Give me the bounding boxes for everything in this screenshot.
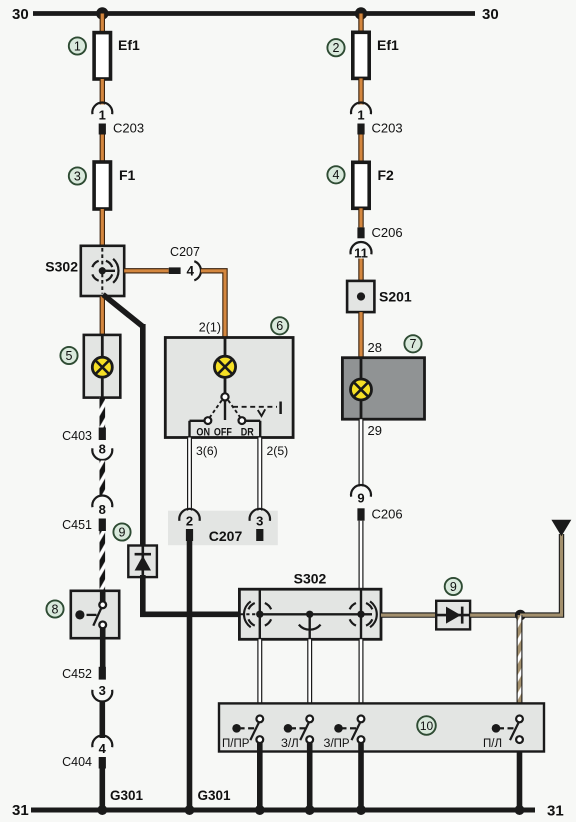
callout 6: [271, 317, 288, 334]
svg-text:F2: F2: [378, 167, 395, 183]
svg-text:7: 7: [410, 337, 417, 351]
svg-text:11: 11: [354, 246, 368, 261]
fuse F2: [353, 162, 369, 208]
svg-text:3: 3: [99, 683, 106, 698]
junction on bus 31: [515, 805, 525, 815]
wire Z/PR to ground bus: [358, 743, 364, 810]
connector C206 pin 9: [351, 485, 371, 497]
svg-text:2: 2: [186, 514, 193, 529]
svg-text:6: 6: [276, 319, 283, 333]
svg-text:30: 30: [482, 6, 499, 23]
svg-text:8: 8: [99, 442, 106, 457]
callout 1: [69, 37, 86, 54]
svg-text:9: 9: [450, 580, 457, 594]
switch unit 10 door switches: [219, 703, 544, 751]
svg-text:G301: G301: [110, 788, 144, 803]
junction on bus 30 left: [96, 7, 108, 19]
callout 4: [327, 166, 344, 183]
svg-text:1: 1: [74, 39, 81, 53]
svg-text:10: 10: [420, 719, 434, 733]
svg-text:31: 31: [547, 803, 564, 820]
switch in unit 6: [221, 393, 228, 400]
wire C452 to C404: [100, 702, 106, 738]
junction on bus 31: [185, 805, 195, 815]
wire junction to switch P/L: [517, 615, 523, 716]
wire S302 to lamp 5: [100, 296, 105, 335]
wire 2(5) to C207 pin3: [257, 438, 262, 511]
wire Ef1 to C203 right: [358, 78, 363, 104]
connector C207 block: [168, 511, 278, 546]
off-page arrow: [551, 520, 571, 536]
svg-text:C203: C203: [113, 121, 144, 136]
svg-text:9: 9: [119, 525, 126, 539]
lamp in unit 6: [224, 338, 227, 357]
connector C451 pin 8: [92, 496, 112, 508]
wire F2 to C206: [358, 208, 363, 227]
svg-text:C203: C203: [372, 121, 403, 136]
connector C203 pin 1 right: [351, 103, 371, 115]
svg-text:C207: C207: [209, 528, 243, 544]
switch S302 courtesy lamps: [239, 589, 381, 639]
wire P/PR to ground bus: [257, 743, 263, 810]
wire F1 to switch S302: [100, 209, 105, 246]
wire C206 pin9 to switch S302 courtesy: [359, 521, 364, 590]
svg-text:30: 30: [12, 6, 29, 23]
svg-text:31: 31: [12, 802, 29, 819]
contact left S302: [241, 613, 257, 615]
svg-text:S302: S302: [45, 259, 78, 275]
svg-text:3: 3: [256, 514, 263, 529]
svg-text:C451: C451: [62, 518, 92, 532]
svg-text:4: 4: [187, 263, 195, 278]
connector C207 pin 4: [169, 267, 181, 274]
lamp 5 underhood: [84, 335, 121, 398]
wire C451 to switch 8: [100, 531, 106, 591]
connector C403 pin 8: [99, 428, 106, 441]
wire C403 to C451: [100, 461, 106, 497]
wire C206 to S201: [358, 259, 363, 282]
wire S302 middle contact down: [309, 618, 311, 640]
switch S302 ignition: [81, 246, 124, 296]
wire Z/L to ground bus: [307, 743, 313, 810]
wire Ef1 to connector C203 pin1 left: [100, 79, 105, 105]
linkage dashed to door actuator: [233, 406, 277, 408]
junction on bus 31: [356, 805, 366, 815]
svg-text:2: 2: [333, 41, 340, 55]
svg-text:C206: C206: [372, 225, 403, 240]
connector C203 pin 1 left: [92, 103, 112, 115]
junction node tan: [515, 610, 526, 621]
wire C207 pin2 to ground G301: [187, 541, 193, 810]
wire C404 to ground G301: [100, 769, 106, 811]
connector C207 pin 3: [250, 509, 270, 521]
callout 7: [404, 335, 421, 352]
contact right S302: [366, 603, 372, 609]
svg-text:C404: C404: [62, 755, 92, 769]
contact middle S302: [260, 613, 361, 615]
wire S302 right contact down: [360, 618, 362, 640]
fuse Ef1 left: [94, 33, 110, 79]
svg-text:C452: C452: [62, 667, 92, 681]
svg-text:ON: ON: [196, 426, 210, 438]
svg-text:П/ПР: П/ПР: [222, 738, 250, 750]
svg-text:DR: DR: [241, 426, 254, 438]
diode 9 left: [128, 546, 157, 578]
svg-text:8: 8: [52, 602, 59, 616]
wire lamp6 DR contact: [245, 420, 260, 422]
callout 8: [46, 600, 63, 617]
svg-text:Ef1: Ef1: [377, 37, 399, 53]
svg-text:5: 5: [66, 349, 73, 363]
junction on bus 31: [255, 805, 265, 815]
wire junction to off-page arrow: [518, 534, 562, 615]
svg-text:З/ПР: З/ПР: [324, 738, 350, 750]
callout 5: [60, 347, 77, 364]
svg-text:S302: S302: [294, 571, 327, 587]
connector C404 pin 4: [92, 736, 112, 748]
diode 9 right: [436, 601, 470, 630]
wire P/L to ground bus: [517, 752, 523, 811]
svg-text:C207: C207: [170, 245, 200, 259]
svg-text:G301: G301: [198, 788, 232, 803]
wire S201 to lamp unit 7: [358, 312, 363, 358]
wire diode9 to switch S302 courtesy: [140, 575, 146, 614]
wire S302 to diode 9 (diagonal): [103, 295, 143, 327]
svg-text:9: 9: [357, 491, 364, 506]
wire S302 left contact down: [259, 618, 261, 640]
wire C207 pin4 to lamp unit: [201, 271, 225, 338]
switch P/PR: [232, 724, 241, 733]
svg-text:4: 4: [99, 741, 107, 756]
svg-text:S201: S201: [379, 289, 412, 305]
junction on bus 31: [97, 805, 107, 815]
connector C207 pin 2: [179, 509, 199, 521]
svg-text:П/Л: П/Л: [483, 738, 502, 750]
callout 2: [327, 39, 344, 56]
wire bus30 to fuse Ef1 right: [358, 14, 363, 33]
svg-text:2(5): 2(5): [267, 444, 289, 458]
wire S302 to diode 9 right: [381, 612, 436, 617]
connector C452 pin 3: [99, 667, 106, 680]
svg-text:28: 28: [368, 340, 382, 355]
svg-text:F1: F1: [119, 167, 136, 183]
splice S201: [347, 281, 374, 312]
wire 3(6) to C207 pin2: [187, 438, 192, 511]
svg-text:3: 3: [74, 169, 81, 183]
switch 8 door jamb: [71, 591, 119, 638]
fuse Ef1 right: [353, 32, 369, 78]
lamp unit 6 courtesy lamp: [165, 338, 293, 438]
wire C203 to fuse F2: [358, 135, 363, 163]
svg-text:З/Л: З/Л: [281, 738, 299, 750]
svg-text:OFF: OFF: [214, 426, 232, 438]
svg-text:4: 4: [333, 168, 340, 182]
wire bus30 to fuse Ef1 left: [100, 14, 105, 33]
wire C203 to fuse F1: [100, 135, 105, 163]
wire lamp5 to C403: [100, 398, 106, 428]
svg-text:C403: C403: [62, 429, 92, 443]
junction on bus 31: [305, 805, 315, 815]
lamp 7 glovebox: [342, 358, 424, 420]
fuse F1: [94, 162, 110, 209]
switch Z/PR: [334, 724, 343, 733]
svg-text:C206: C206: [372, 507, 403, 522]
svg-text:8: 8: [99, 502, 106, 517]
bus 30: [33, 11, 475, 16]
connector C206 pin 11: [357, 227, 364, 238]
svg-text:Ef1: Ef1: [118, 37, 140, 53]
callout 10: [417, 716, 436, 735]
svg-text:1: 1: [99, 108, 106, 123]
bus 31: [31, 808, 535, 813]
wire lamp6 ON contact: [190, 420, 206, 422]
junction on bus 30 right: [355, 7, 367, 19]
wire S302 to connector C207 pin4: [124, 268, 169, 273]
wire switch8 to C452: [100, 638, 106, 668]
callout 9 right: [445, 578, 462, 595]
svg-text:2(1): 2(1): [199, 321, 221, 335]
svg-text:29: 29: [368, 423, 382, 438]
wire diode9 to junction: [470, 612, 523, 617]
callout 9 left: [113, 523, 130, 540]
switch Z/L: [284, 724, 293, 733]
switch P/L: [492, 724, 501, 733]
callout 3: [69, 167, 86, 184]
svg-text:1: 1: [357, 108, 364, 123]
svg-text:3(6): 3(6): [196, 444, 218, 458]
